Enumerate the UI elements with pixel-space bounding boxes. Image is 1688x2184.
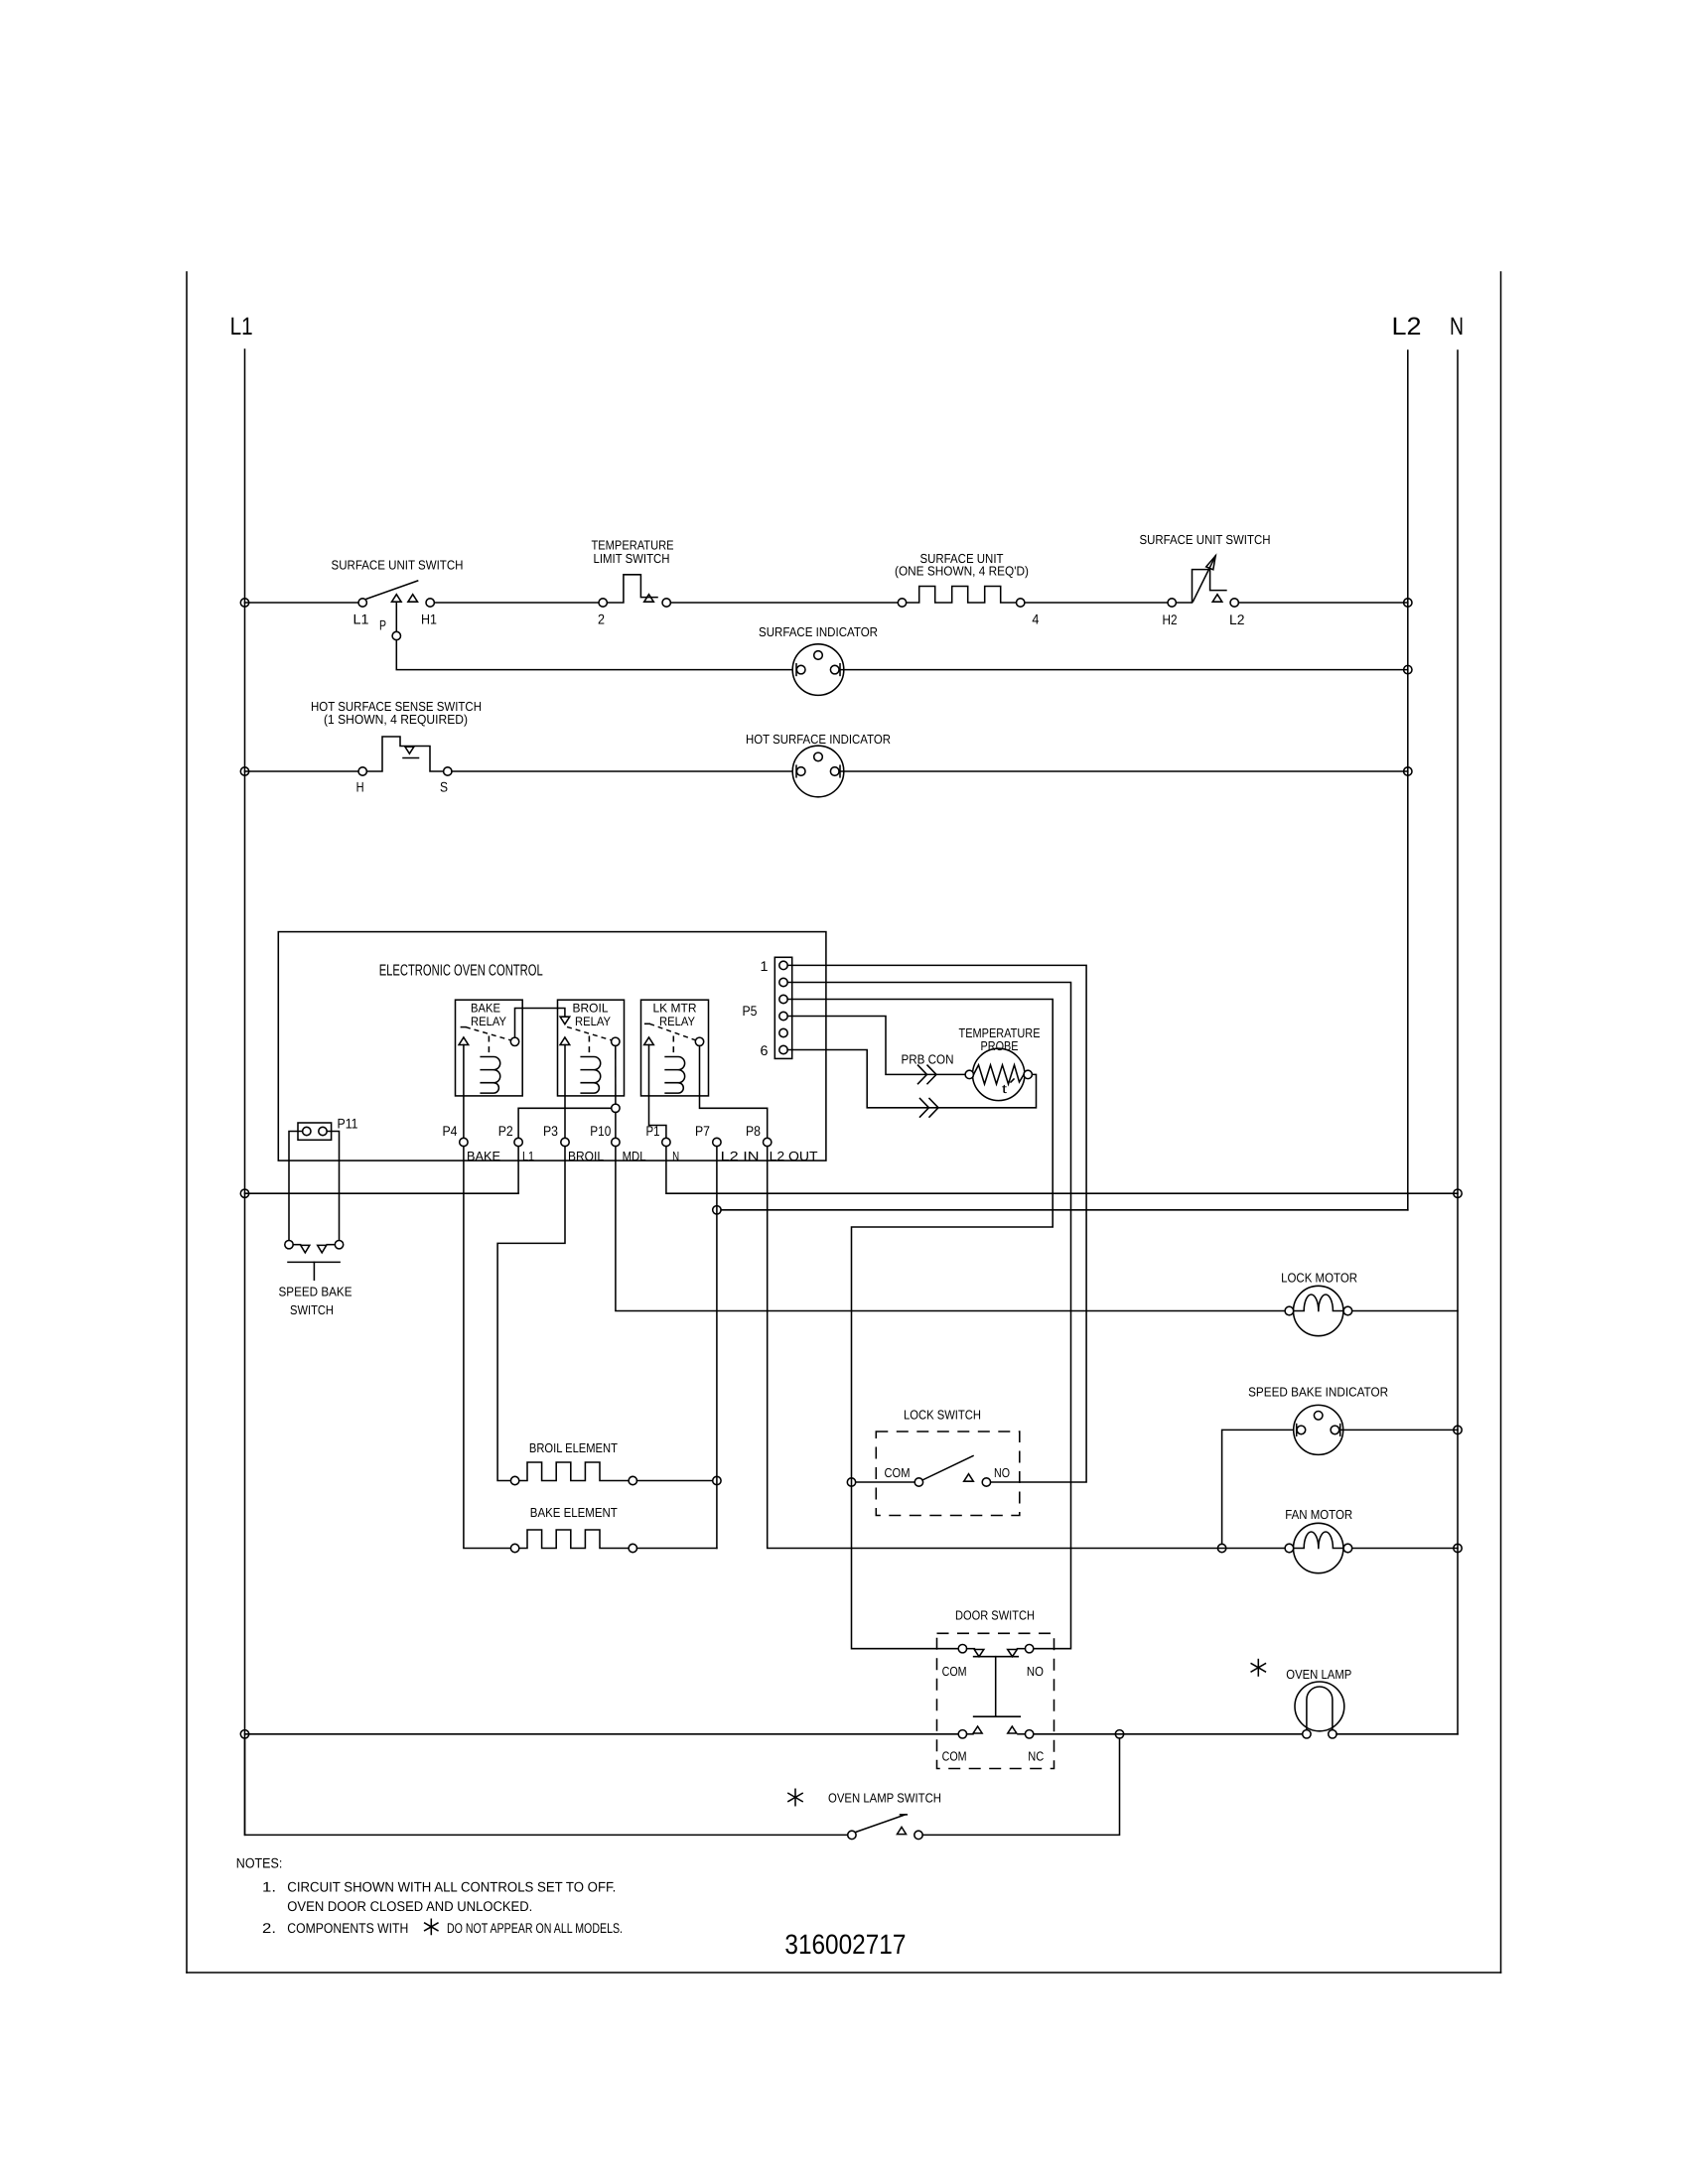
wire door switch lower internal — [967, 1733, 973, 1735]
wire junction to P10 — [615, 1113, 617, 1139]
electronic oven control box U1 — [278, 932, 826, 1161]
surface indicator lamp DS1 — [792, 644, 844, 696]
svg-text:HOT SURFACE INDICATOR: HOT SURFACE INDICATOR — [746, 732, 891, 747]
svg-text:1.: 1. — [262, 1878, 276, 1894]
svg-text:RELAY: RELAY — [659, 1015, 696, 1028]
bake relay K1 contact blade — [461, 1026, 466, 1028]
node fan motor row junction — [1217, 1544, 1225, 1552]
wire P3 riser to broil element — [497, 1147, 565, 1481]
svg-text:MDL: MDL — [623, 1149, 646, 1163]
broil relay K2 coil — [581, 1057, 601, 1094]
svg-text:316002717: 316002717 — [784, 1929, 906, 1960]
svg-text:L2: L2 — [1392, 313, 1422, 341]
svg-text:SURFACE UNIT SWITCH: SURFACE UNIT SWITCH — [332, 558, 464, 573]
node L1 lamp row junction — [240, 1730, 248, 1738]
wire L2 bus to L2 rail — [721, 1209, 1408, 1211]
node lamp row junction — [1115, 1730, 1123, 1738]
svg-text:LK MTR: LK MTR — [653, 1002, 697, 1016]
connector P11 pins — [303, 1127, 311, 1135]
wire speed bake indicator to N rail — [1340, 1429, 1458, 1431]
temperature limit switch S2 — [599, 599, 607, 607]
wire fan motor to N rail — [1352, 1548, 1458, 1550]
wire P5 pin2 to door switch NO — [787, 983, 1070, 1649]
wire lamp switch to lamp row junction — [922, 1738, 1119, 1835]
node L1-row1 junction — [240, 599, 248, 607]
probe connector chevron lower — [920, 1099, 939, 1118]
terminal P2 — [514, 1138, 522, 1146]
bake relay K1 coil — [481, 1057, 500, 1094]
wire row1 to surface unit switch SW2 — [1025, 602, 1168, 604]
connector P5 pin 2 — [779, 978, 787, 986]
lock switch S5 — [914, 1478, 922, 1486]
bake element R3 — [510, 1544, 518, 1552]
wire P10 riser to lock motor row — [616, 1147, 1285, 1311]
svg-text:NC: NC — [1028, 1748, 1044, 1763]
svg-text:SWITCH: SWITCH — [290, 1302, 334, 1317]
oven lamp star — [1257, 1660, 1259, 1676]
svg-text:NO: NO — [1027, 1664, 1044, 1679]
connector P11 body — [298, 1123, 332, 1140]
wire row1 to L2 rail — [1238, 602, 1407, 604]
svg-text:COM: COM — [885, 1465, 911, 1480]
svg-text:P7: P7 — [695, 1123, 710, 1139]
svg-text:LIMIT SWITCH: LIMIT SWITCH — [594, 551, 670, 566]
wire P branch down from SW1 — [395, 603, 397, 631]
broil relay K2 contact blade — [567, 1026, 613, 1040]
bake relay K1 link — [488, 1036, 490, 1057]
svg-text:P11: P11 — [338, 1115, 358, 1131]
svg-text:LOCK SWITCH: LOCK SWITCH — [904, 1407, 981, 1422]
lock motor relay K3 coil — [665, 1057, 685, 1094]
svg-text:DO NOT APPEAR ON ALL MODELS.: DO NOT APPEAR ON ALL MODELS. — [447, 1920, 623, 1936]
wire L1 bus to EOC L1 terminal — [245, 1192, 519, 1194]
wire junction to lock switch COM — [856, 1481, 914, 1483]
broil relay K2 armature arrow — [560, 1037, 570, 1045]
svg-text:COMPONENTS WITH: COMPONENTS WITH — [287, 1920, 408, 1936]
hot surface indicator lamp DS2 — [792, 746, 844, 797]
svg-text:COM: COM — [942, 1748, 967, 1763]
svg-text:L2 OUT: L2 OUT — [770, 1149, 818, 1163]
svg-text:PRB CON: PRB CON — [902, 1052, 954, 1067]
wire bake element to L2 IN riser — [637, 1548, 717, 1550]
broil relay K2 fixed contact — [560, 1017, 570, 1024]
svg-text:P2: P2 — [498, 1123, 513, 1139]
terminal P4 — [460, 1138, 468, 1146]
wire P4 riser to bake element — [464, 1147, 511, 1549]
wire lock motor to N rail — [1352, 1310, 1458, 1312]
wire lamp row from L1 to door switch — [245, 1733, 959, 1735]
connector P5 pin 6 — [779, 1045, 787, 1053]
wire P8 riser to fan motor row — [768, 1147, 1286, 1549]
svg-text:P1: P1 — [646, 1123, 660, 1139]
terminal P circle — [392, 631, 400, 639]
wire P branch to surface indicator — [396, 640, 792, 670]
connector P5 pin 3 — [779, 995, 787, 1003]
lock motor relay K3 contact blade — [645, 1023, 650, 1024]
wire P5 pin3 to door switch COM — [787, 1000, 1053, 1649]
lock motor relay K3 box — [641, 1000, 709, 1096]
terminal P10 — [612, 1138, 620, 1146]
wire bake relay contact to broil relay input — [515, 1009, 565, 1038]
wire L2 rail — [1407, 350, 1409, 1210]
wire row1 left from L1 to surface unit switch — [245, 602, 358, 604]
wire row3 from L1 to hot surface sense switch — [245, 770, 358, 772]
oven lamp switch S7 — [848, 1831, 856, 1839]
svg-text:COM: COM — [942, 1664, 967, 1679]
node N rail speed bake junction — [1454, 1426, 1462, 1433]
broil relay K2 box — [558, 1000, 625, 1096]
svg-text:BAKE: BAKE — [471, 1002, 500, 1016]
speed bake switch S4 — [285, 1241, 293, 1249]
node L2 bus junction on P7 riser — [713, 1206, 721, 1214]
wire broil element to L2 IN riser — [637, 1480, 713, 1482]
wire speed bake indicator feed — [1222, 1430, 1293, 1544]
wire P5 pin4 to probe connector — [787, 1017, 965, 1075]
lock motor relay K3 contact terminal — [695, 1037, 703, 1045]
svg-text:SURFACE UNIT SWITCH: SURFACE UNIT SWITCH — [1140, 532, 1271, 547]
wire oven lamp to N rail — [1336, 1733, 1458, 1735]
svg-text:P3: P3 — [543, 1123, 558, 1139]
svg-text:SPEED BAKE: SPEED BAKE — [279, 1284, 352, 1298]
wire broil contact to junction — [615, 1046, 617, 1105]
svg-text:L1: L1 — [353, 612, 369, 627]
wire P2 riser to L1 bus — [517, 1147, 519, 1194]
wire N bus from P1 to N rail — [666, 1147, 1458, 1194]
wire P11 right to speed bake switch — [327, 1132, 339, 1241]
door switch S6 lower contacts — [958, 1730, 966, 1738]
svg-text:N: N — [1450, 313, 1464, 341]
svg-text:NOTES:: NOTES: — [236, 1855, 282, 1871]
terminal P3 — [561, 1138, 569, 1146]
svg-text:BAKE: BAKE — [467, 1149, 500, 1163]
svg-text:CIRCUIT SHOWN WITH ALL CONTROL: CIRCUIT SHOWN WITH ALL CONTROLS SET TO O… — [287, 1878, 616, 1894]
wire row1 H1 to temperature limit switch — [434, 602, 598, 604]
node broil element junction on P7 riser — [713, 1476, 721, 1484]
wire P7 riser down — [716, 1147, 718, 1549]
node broil contact junction — [612, 1104, 620, 1112]
oven lamp DS4 — [1295, 1682, 1344, 1731]
svg-text:P10: P10 — [590, 1123, 611, 1139]
svg-text:H2: H2 — [1163, 612, 1178, 627]
wire N rail — [1457, 350, 1459, 1734]
node N rail fan junction — [1454, 1544, 1462, 1552]
lock motor relay K3 link — [672, 1036, 674, 1057]
lock switch S5 enclosure — [876, 1432, 1020, 1516]
lock motor relay K3 armature arrow — [644, 1037, 654, 1045]
broil element R2 — [510, 1476, 518, 1484]
surface unit heating element R1 — [898, 599, 906, 607]
broil relay K2 contact terminal — [612, 1037, 620, 1045]
svg-text:OVEN DOOR CLOSED AND UNLOCKED.: OVEN DOOR CLOSED AND UNLOCKED. — [287, 1898, 532, 1914]
connector P5 pin 4 — [779, 1012, 787, 1020]
wire P11 left to speed bake switch — [289, 1132, 303, 1241]
wire junction to P2 — [518, 1108, 612, 1138]
wire lamp switch row from L1 — [245, 1738, 848, 1835]
door switch actuator — [995, 1657, 997, 1717]
node L2-row2 junction — [1404, 665, 1412, 673]
svg-text:P8: P8 — [746, 1123, 761, 1139]
surface unit switch SW2 — [1168, 599, 1176, 607]
svg-text:L1: L1 — [230, 313, 253, 341]
svg-text:BAKE ELEMENT: BAKE ELEMENT — [530, 1505, 618, 1520]
svg-text:FAN MOTOR: FAN MOTOR — [1285, 1507, 1352, 1522]
temperature probe RT1 — [973, 1048, 1025, 1100]
svg-text:L1: L1 — [522, 1149, 534, 1163]
svg-text:2.: 2. — [262, 1920, 276, 1936]
probe connector chevron upper PRB CON — [918, 1065, 937, 1084]
wire P5 pin6 to probe return — [787, 1050, 1036, 1108]
oven lamp switch star — [794, 1789, 796, 1805]
svg-text:L2 IN: L2 IN — [721, 1149, 760, 1163]
svg-text:P5: P5 — [743, 1003, 758, 1019]
svg-text:BROIL ELEMENT: BROIL ELEMENT — [529, 1440, 618, 1455]
svg-text:BROIL: BROIL — [568, 1149, 604, 1163]
broil relay K2 link — [588, 1036, 590, 1057]
wire bake armature to P4 — [463, 1045, 465, 1139]
svg-text:OVEN LAMP SWITCH: OVEN LAMP SWITCH — [828, 1791, 941, 1806]
terminal P7 — [713, 1138, 721, 1146]
node L1 bus junction — [240, 1189, 248, 1197]
svg-text:(1 SHOWN, 4 REQUIRED): (1 SHOWN, 4 REQUIRED) — [324, 712, 468, 727]
speed bake indicator lamp DS3 — [1294, 1405, 1343, 1454]
svg-text:S: S — [440, 779, 448, 795]
svg-text:P: P — [379, 617, 386, 633]
svg-text:NO: NO — [994, 1465, 1010, 1480]
wire row1 to surface unit element — [670, 602, 898, 604]
connector P5 pin 1 — [779, 961, 787, 969]
terminal P1 — [662, 1138, 670, 1146]
node L2-row3 junction — [1404, 767, 1412, 775]
svg-text:L2: L2 — [1229, 612, 1245, 627]
node L2-row1 junction — [1404, 599, 1412, 607]
svg-text:P4: P4 — [443, 1123, 458, 1139]
svg-text:2: 2 — [598, 612, 605, 627]
svg-text:(ONE SHOWN, 4 REQ'D): (ONE SHOWN, 4 REQ'D) — [895, 564, 1029, 579]
svg-text:ELECTRONIC OVEN CONTROL: ELECTRONIC OVEN CONTROL — [379, 963, 543, 980]
svg-text:1: 1 — [761, 958, 769, 974]
wire P5 pin1 to lock switch NO — [787, 965, 1086, 1482]
bake relay K1 armature arrow — [459, 1037, 469, 1045]
svg-text:OVEN LAMP: OVEN LAMP — [1286, 1667, 1351, 1682]
svg-text:LOCK MOTOR: LOCK MOTOR — [1281, 1271, 1357, 1286]
surface unit switch SW1 — [358, 599, 366, 607]
svg-text:BROIL: BROIL — [573, 1002, 609, 1016]
svg-text:N: N — [672, 1149, 679, 1163]
wire row3 to hot surface indicator — [452, 770, 792, 772]
wire lock relay contact to P8 — [700, 1046, 768, 1139]
connector P5 pin 5 — [779, 1028, 787, 1036]
svg-text:H1: H1 — [421, 612, 437, 627]
hot surface sense switch S3 — [358, 767, 366, 775]
fan motor M2 — [1294, 1523, 1343, 1572]
terminal P8 — [764, 1138, 772, 1146]
bake relay K1 contact terminal — [510, 1037, 518, 1045]
wire L1 rail — [244, 349, 246, 1835]
svg-text:SPEED BAKE INDICATOR: SPEED BAKE INDICATOR — [1248, 1385, 1388, 1400]
svg-text:6: 6 — [761, 1042, 769, 1058]
wire hot surface indicator to L2 rail — [840, 770, 1408, 772]
svg-text:RELAY: RELAY — [471, 1015, 507, 1028]
connector P5 body — [774, 957, 791, 1058]
wire door switch NC to oven lamp — [1034, 1733, 1303, 1735]
lock motor M1 — [1294, 1286, 1343, 1335]
svg-text:H: H — [356, 779, 364, 795]
svg-text:t: t — [1002, 1082, 1008, 1096]
svg-text:DOOR SWITCH: DOOR SWITCH — [955, 1608, 1035, 1623]
wire broil armature to P3 — [564, 1045, 566, 1139]
node N bus junction at N rail — [1454, 1189, 1462, 1197]
wire surface indicator to L2 rail — [840, 669, 1408, 671]
wire lock relay armature to P1 — [649, 1045, 666, 1139]
door switch S6 upper contacts — [958, 1645, 966, 1653]
svg-text:4: 4 — [1032, 612, 1039, 627]
svg-text:SURFACE INDICATOR: SURFACE INDICATOR — [759, 624, 878, 639]
door switch S6 enclosure — [937, 1633, 1055, 1768]
bake relay K1 box — [456, 1000, 523, 1096]
node L1-row3 junction — [240, 767, 248, 775]
svg-text:RELAY: RELAY — [575, 1015, 612, 1028]
node lock switch branch junction — [847, 1478, 855, 1486]
